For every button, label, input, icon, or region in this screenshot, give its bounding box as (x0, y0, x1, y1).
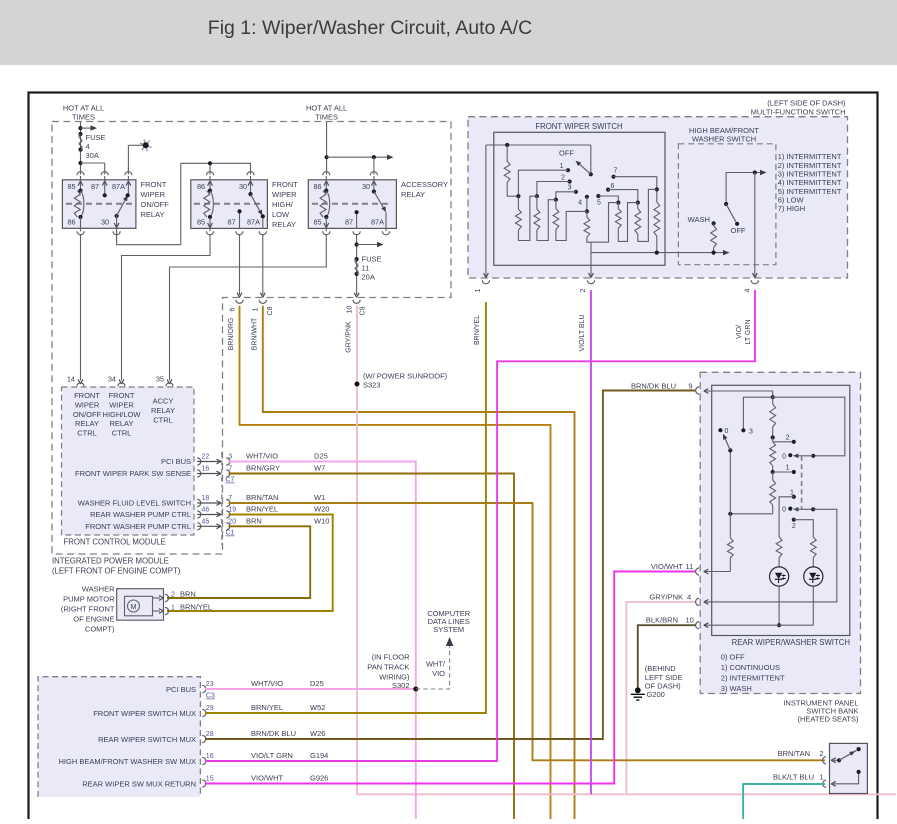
wire GRY/PNK circuit 10 w/ splice S323 (357, 306, 896, 795)
svg-text:6: 6 (611, 183, 615, 190)
FWS common node (486, 144, 591, 146)
svg-text:20A: 20A (362, 273, 375, 282)
svg-text:22: 22 (202, 454, 210, 461)
svg-text:BRN: BRN (246, 517, 262, 526)
svg-text:1: 1 (819, 772, 823, 781)
svg-text:87: 87 (227, 218, 235, 227)
FWS resistor R0 (506, 145, 508, 161)
svg-text:28: 28 (206, 731, 214, 738)
relay K1 pin 85 (77, 172, 84, 176)
svg-text:OFF: OFF (559, 149, 574, 158)
svg-text:C3: C3 (206, 693, 215, 700)
svg-text:VIO/LT BLU: VIO/LT BLU (579, 314, 586, 351)
svg-text:VIO/WHT: VIO/WHT (651, 562, 683, 571)
deck2 common 0 (788, 507, 792, 511)
svg-text:WIPER: WIPER (109, 400, 134, 409)
svg-text:2: 2 (792, 523, 796, 530)
wire to MFS pin 4 (754, 173, 756, 277)
svg-text:HIGH BEAM/FRONT WASHER SW MUX: HIGH BEAM/FRONT WASHER SW MUX (58, 757, 196, 766)
mechanical link dashed (801, 456, 803, 510)
svg-text:14: 14 (67, 375, 75, 384)
svg-text:FRONT: FRONT (272, 180, 298, 189)
svg-text:87A: 87A (112, 182, 125, 191)
svg-text:0: 0 (782, 507, 786, 514)
FWS contact 5 (596, 194, 600, 198)
svg-text:7) HIGH: 7) HIGH (778, 204, 806, 213)
svg-text:RELAY: RELAY (272, 220, 296, 229)
FWS resistor R7 (654, 202, 660, 236)
connector C7 boundary (221, 452, 223, 487)
svg-text:GRY/PNK: GRY/PNK (346, 321, 353, 353)
FWS resistor R1 (517, 196, 519, 209)
svg-text:20: 20 (228, 518, 236, 525)
svg-text:87: 87 (345, 218, 353, 227)
svg-text:1) INTERMITTENT: 1) INTERMITTENT (778, 152, 842, 161)
svg-text:(W/ POWER SUNROOF): (W/ POWER SUNROOF) (363, 371, 448, 380)
wire VIO/LT BLU circuit 2 (590, 290, 592, 794)
svg-text:D25: D25 (314, 452, 328, 461)
FWS contact 7 (612, 175, 616, 179)
svg-text:ACCY: ACCY (153, 397, 174, 406)
svg-text:45: 45 (202, 518, 210, 525)
relay K3 coil (324, 189, 328, 193)
rear switch left resistor (729, 514, 731, 538)
svg-text:1) CONTINUOUS: 1) CONTINUOUS (721, 663, 780, 672)
motor pin 2 (153, 597, 161, 599)
svg-text:10: 10 (686, 616, 694, 625)
svg-text:FRONT WASHER PUMP CTRL: FRONT WASHER PUMP CTRL (85, 522, 191, 531)
rear switch pin 10 (705, 624, 814, 626)
connector C1 boundary (221, 494, 223, 545)
svg-text:W52: W52 (310, 703, 325, 712)
wire BLK/LT BLU (743, 784, 825, 819)
svg-text:10: 10 (347, 306, 354, 314)
svg-text:16: 16 (206, 753, 214, 760)
svg-text:BLK/BRN: BLK/BRN (646, 616, 678, 625)
ground G200 (635, 687, 641, 693)
FWS resistor R4 (586, 211, 588, 217)
svg-text:1: 1 (790, 489, 794, 496)
svg-text:BRN/YEL: BRN/YEL (251, 703, 283, 712)
washer switch arm (726, 173, 763, 205)
svg-text:87: 87 (91, 182, 99, 191)
svg-text:46: 46 (202, 507, 210, 514)
svg-text:BRN/TAN: BRN/TAN (778, 749, 810, 758)
svg-text:WIPER: WIPER (141, 190, 166, 199)
relay K3 pin 30 (370, 172, 377, 176)
svg-text:FRONT CONTROL MODULE: FRONT CONTROL MODULE (64, 538, 166, 547)
svg-text:FRONT WIPER PARK SW SENSE: FRONT WIPER PARK SW SENSE (75, 469, 191, 478)
rear switch resistor chain R2 (770, 442, 776, 466)
svg-text:6: 6 (229, 307, 236, 311)
svg-text:(IN FLOOR: (IN FLOOR (372, 653, 411, 662)
FWS resistor R2 (536, 196, 538, 209)
relay K2 FRONT WIPER HIGH/LOW RELAY (191, 180, 268, 229)
svg-text:REAR WASHER PUMP CTRL: REAR WASHER PUMP CTRL (90, 510, 191, 519)
svg-text:29: 29 (206, 705, 214, 712)
svg-text:86: 86 (313, 182, 321, 191)
svg-text:BRN/YEL: BRN/YEL (246, 505, 278, 514)
svg-text:0: 0 (782, 453, 786, 460)
wire to deck1 common (773, 397, 845, 456)
svg-text:BRN/DK BLU: BRN/DK BLU (631, 381, 676, 390)
svg-text:BRN: BRN (180, 589, 196, 598)
svg-text:2: 2 (819, 749, 823, 758)
svg-text:87A: 87A (247, 218, 260, 227)
FWS resistor R5 (617, 203, 619, 209)
FWS contact 2 (568, 179, 572, 183)
svg-text:W20: W20 (314, 505, 329, 514)
rear switch arm (left) (729, 450, 731, 513)
svg-text:RELAY: RELAY (401, 190, 425, 199)
relay K1 pin 87 (101, 172, 108, 176)
svg-text:WHT/VIO: WHT/VIO (246, 452, 278, 461)
relay K3 pin 85 (325, 217, 327, 231)
wire K1 pin30 to K2 feed (113, 231, 120, 235)
wire BRN/WHT circuit 1 (263, 306, 575, 819)
heated seat switch (bottom right) (830, 743, 868, 793)
svg-text:1: 1 (786, 465, 790, 472)
svg-text:BRN/ORG: BRN/ORG (228, 318, 235, 351)
svg-text:1: 1 (560, 163, 564, 170)
relay K1 FRONT WIPER ON/OFF RELAY (62, 180, 135, 229)
connector C9 pin 10 (353, 300, 360, 304)
wire K1 pin 86 to FCM pin 14 (77, 231, 84, 235)
wire fuse 4 drop (80, 122, 82, 175)
svg-text:BLK/LT BLU: BLK/LT BLU (773, 772, 814, 781)
svg-text:ON/OFF: ON/OFF (73, 410, 102, 419)
FWS contact 6 (606, 188, 610, 192)
svg-text:ON/OFF: ON/OFF (141, 200, 170, 209)
wire splice arrow right (81, 127, 93, 129)
svg-text:GRY/PNK: GRY/PNK (649, 592, 683, 601)
svg-text:23: 23 (206, 681, 214, 688)
svg-text:WASH: WASH (688, 215, 710, 224)
svg-text:PUMP MOTOR: PUMP MOTOR (63, 595, 115, 604)
svg-text:30A: 30A (86, 151, 99, 160)
wire K2 pin 87 to C8 pin 6 (236, 231, 243, 235)
svg-text:S302: S302 (392, 681, 410, 690)
relay K1 coil (78, 189, 82, 193)
svg-text:(LEFT FRONT OF ENGINE COMPT): (LEFT FRONT OF ENGINE COMPT) (52, 566, 181, 575)
svg-text:PAN TRACK: PAN TRACK (367, 663, 409, 672)
svg-text:FRONT: FRONT (141, 180, 167, 189)
LED indicator (right) (804, 567, 823, 586)
svg-text:G926: G926 (310, 773, 328, 782)
svg-text:(HEATED SEATS): (HEATED SEATS) (798, 715, 859, 724)
svg-text:LOW: LOW (272, 210, 290, 219)
svg-text:RELAY: RELAY (141, 210, 165, 219)
svg-text:4: 4 (745, 288, 752, 292)
svg-text:TIMES: TIMES (72, 113, 95, 122)
Integrated Power Module dashed outline (52, 122, 451, 555)
relay K1 pin 87A (125, 172, 132, 176)
svg-text:FUSE: FUSE (86, 133, 106, 142)
svg-text:BRN/TAN: BRN/TAN (246, 493, 278, 502)
wire K2 pin 85 to FCM pin 34 (206, 231, 213, 235)
svg-text:35: 35 (156, 375, 164, 384)
relay K2 pin 86 (206, 172, 213, 176)
svg-text:FRONT: FRONT (74, 391, 100, 400)
svg-text:86: 86 (67, 218, 75, 227)
fuse F11 20A (355, 257, 359, 261)
svg-text:30: 30 (239, 182, 247, 191)
svg-text:OFF: OFF (731, 226, 746, 235)
svg-text:3: 3 (749, 428, 753, 435)
svg-text:WASHER: WASHER (82, 585, 115, 594)
splice from K1 87A (127, 145, 129, 174)
relay K2 pin 30 (247, 172, 254, 176)
svg-text:(BEHIND: (BEHIND (645, 664, 676, 673)
svg-text:85: 85 (67, 182, 75, 191)
wire BLK/BRN to ground (638, 625, 696, 688)
LED indicator (middle) (770, 567, 789, 586)
svg-text:6) LOW: 6) LOW (778, 196, 805, 205)
wire K2 pin 87A to C8 pin 1 (259, 231, 266, 235)
FRONT WIPER SWITCH box (494, 132, 665, 265)
svg-text:WHT/: WHT/ (426, 660, 446, 669)
wire K2 feed loop (86+30 tie) (209, 163, 211, 174)
wire accessory relay feed (326, 122, 328, 175)
svg-text:4: 4 (86, 142, 90, 151)
svg-text:BRN/DK BLU: BRN/DK BLU (251, 729, 296, 738)
svg-text:FUSE: FUSE (362, 255, 382, 264)
wire to contact 3 (743, 397, 772, 430)
rear switch right resistor (810, 537, 816, 558)
svg-text:4: 4 (578, 200, 582, 207)
svg-text:REAR WIPER SWITCH MUX: REAR WIPER SWITCH MUX (98, 735, 196, 744)
wire K3 pin 87 to fuse 11 (353, 231, 360, 235)
svg-text:VIO: VIO (432, 669, 445, 678)
relay K2 contact arm (248, 192, 252, 196)
relay K1 contact arm (115, 214, 119, 218)
FWS contact 4 (585, 195, 589, 199)
svg-text:VIO/: VIO/ (736, 325, 743, 339)
svg-text:HIGH/: HIGH/ (272, 200, 294, 209)
relay K2 pin 87 (239, 211, 241, 228)
svg-text:7: 7 (228, 495, 232, 502)
rear switch pin 11 (705, 571, 731, 573)
svg-text:WASHER SWITCH: WASHER SWITCH (692, 135, 756, 144)
svg-text:LT GRN: LT GRN (745, 319, 752, 344)
relay K2 pin 87A (262, 216, 264, 228)
svg-text:34: 34 (108, 375, 116, 384)
contact 1 row (773, 471, 794, 473)
svg-text:0: 0 (725, 428, 729, 435)
wire FWS to MFS pin 1 (485, 145, 487, 277)
svg-text:S323: S323 (363, 380, 381, 389)
FWS OFF contact arm (590, 145, 592, 174)
svg-text:2: 2 (561, 174, 565, 181)
relay K1 pin 86 (80, 217, 82, 231)
svg-text:FRONT WIPER SWITCH MUX: FRONT WIPER SWITCH MUX (93, 709, 196, 718)
svg-text:M: M (131, 604, 137, 611)
relay K3 ACCESSORY RELAY (308, 180, 396, 229)
svg-text:W10: W10 (314, 517, 329, 526)
svg-text:G194: G194 (310, 751, 328, 760)
svg-text:C1: C1 (226, 530, 235, 537)
svg-text:87A: 87A (371, 218, 384, 227)
HIGH BEAM/FRONT WASHER SWITCH dashed box (678, 144, 776, 265)
fuse F4 30A (78, 132, 82, 136)
svg-text:FRONT WIPER SWITCH: FRONT WIPER SWITCH (535, 122, 622, 131)
svg-text:85: 85 (313, 218, 321, 227)
FRONT CONTROL MODULE box (62, 387, 195, 535)
svg-text:VIO/LT GRN: VIO/LT GRN (251, 751, 293, 760)
svg-text:RELAY: RELAY (151, 406, 175, 415)
MULTI-FUNCTION SWITCH dashed box (468, 117, 848, 278)
svg-text:C9: C9 (360, 306, 367, 315)
title bar (0, 0, 897, 65)
svg-text:VIO/WHT: VIO/WHT (251, 773, 283, 782)
svg-text:(RIGHT FRONT: (RIGHT FRONT (61, 605, 115, 614)
svg-text:0) OFF: 0) OFF (721, 653, 745, 662)
svg-text:7: 7 (614, 168, 618, 175)
svg-text:CTRL: CTRL (77, 429, 97, 438)
svg-text:BRN/YEL: BRN/YEL (474, 315, 481, 345)
wire BRN/ORG circuit 6 (240, 306, 551, 819)
svg-text:86: 86 (197, 182, 205, 191)
svg-text:3) WASH: 3) WASH (721, 684, 752, 693)
svg-text:9: 9 (688, 381, 692, 390)
svg-text:C8: C8 (267, 306, 274, 315)
svg-text:BRN/GRY: BRN/GRY (246, 464, 280, 473)
svg-text:FRONT: FRONT (109, 391, 135, 400)
svg-text:W1: W1 (314, 493, 325, 502)
svg-text:3: 3 (228, 454, 232, 461)
wire wash bus (665, 252, 726, 254)
svg-text:4: 4 (687, 592, 691, 601)
instrument cluster module (bottom left) (38, 677, 200, 797)
svg-text:ACCESSORY: ACCESSORY (401, 180, 448, 189)
svg-text:HOT AT ALL: HOT AT ALL (63, 104, 104, 113)
relay K3 pin 87A stub (382, 231, 389, 235)
relay K3 pin 87A (385, 212, 387, 228)
svg-text:11: 11 (686, 562, 694, 571)
svg-text:RELAY: RELAY (75, 419, 99, 428)
svg-text:2: 2 (171, 591, 175, 598)
svg-text:3) INTERMITTENT: 3) INTERMITTENT (778, 170, 842, 179)
svg-text:WASHER FLUID LEVEL SWITCH: WASHER FLUID LEVEL SWITCH (78, 499, 191, 508)
svg-text:30: 30 (101, 218, 109, 227)
svg-text:19: 19 (228, 507, 236, 514)
wire K3 pin 85 to FCM pin 35 (323, 231, 330, 235)
svg-text:REAR WIPER SW MUX RETURN: REAR WIPER SW MUX RETURN (82, 780, 196, 789)
svg-text:HOT AT ALL: HOT AT ALL (306, 104, 347, 113)
svg-text:30: 30 (362, 182, 370, 191)
svg-text:COMPT): COMPT) (85, 625, 115, 634)
svg-text:5: 5 (597, 200, 601, 207)
relay K3 contact arm (372, 189, 376, 193)
relay K3 pin 87 (356, 212, 358, 228)
svg-text:Fig 1: Wiper/Washer Circuit, A: Fig 1: Wiper/Washer Circuit, Auto A/C (208, 17, 532, 39)
svg-text:SYSTEM: SYSTEM (433, 625, 464, 634)
relay K2 pin 85 (209, 217, 211, 231)
svg-text:LEFT SIDE: LEFT SIDE (645, 673, 683, 682)
svg-text:2) INTERMITTENT: 2) INTERMITTENT (721, 674, 785, 683)
splice S302 (413, 687, 418, 692)
svg-text:D25: D25 (310, 679, 324, 688)
svg-text:PCI BUS: PCI BUS (161, 457, 191, 466)
svg-text:3: 3 (568, 185, 572, 192)
svg-text:18: 18 (202, 495, 210, 502)
contact 2 row (773, 441, 794, 443)
deck2 contact 1 (792, 495, 796, 499)
deck2 contact 2 (792, 518, 796, 522)
svg-text:W7: W7 (314, 464, 325, 473)
svg-text:16: 16 (202, 466, 210, 473)
FWS resistor R6 (637, 203, 639, 209)
svg-text:MULTI-FUNCTION SWITCH: MULTI-FUNCTION SWITCH (751, 108, 846, 117)
svg-text:CTRL: CTRL (112, 429, 132, 438)
svg-text:PCI BUS: PCI BUS (166, 685, 196, 694)
REAR WIPER/WASHER SWITCH box (712, 385, 850, 635)
svg-text:4) INTERMITTENT: 4) INTERMITTENT (778, 178, 842, 187)
rear switch middle resistor (776, 537, 782, 558)
relay K2 coil (208, 189, 212, 193)
svg-text:OF ENGINE: OF ENGINE (73, 615, 114, 624)
junction to wiper arm branch (730, 513, 772, 515)
svg-text:BRN/YEL: BRN/YEL (180, 602, 212, 611)
svg-text:WIPER: WIPER (272, 190, 297, 199)
washer pump motor M1 (117, 589, 164, 621)
svg-text:2: 2 (786, 434, 790, 441)
svg-text:HIGH BEAM/FRONT: HIGH BEAM/FRONT (689, 126, 759, 135)
FWS resistor R3 (555, 200, 557, 209)
svg-text:G200: G200 (647, 690, 665, 699)
junction node fuse4 out (78, 161, 82, 165)
rear switch resistor chain R3 (770, 480, 776, 505)
relay K1 pin 30 (116, 216, 118, 228)
svg-text:WHT/VIO: WHT/VIO (251, 679, 283, 688)
svg-text:WIPER: WIPER (75, 400, 100, 409)
FWS contact 3 (574, 190, 578, 194)
svg-text:TIMES: TIMES (315, 113, 338, 122)
svg-text:BRN/WHT: BRN/WHT (251, 317, 258, 350)
svg-text:15: 15 (206, 776, 214, 783)
svg-text:REAR WIPER/WASHER SWITCH: REAR WIPER/WASHER SWITCH (732, 638, 850, 647)
svg-text:7: 7 (228, 466, 232, 473)
computer data lines system note (416, 644, 450, 689)
FWS bus to pin 2 (590, 242, 592, 252)
relay K3 pin 86 (323, 172, 330, 176)
motor pin 1 (153, 610, 161, 612)
svg-text:C7: C7 (226, 477, 235, 484)
svg-text:INTEGRATED POWER MODULE: INTEGRATED POWER MODULE (52, 557, 169, 566)
svg-text:(LEFT SIDE OF DASH): (LEFT SIDE OF DASH) (767, 99, 846, 108)
rear switch resistor chain R1 (772, 397, 774, 404)
FWS contact 1 (566, 168, 570, 172)
svg-text:1: 1 (475, 288, 482, 292)
svg-text:W26: W26 (310, 729, 325, 738)
splice S323 (355, 382, 360, 387)
svg-text:HIGH/LOW: HIGH/LOW (103, 410, 142, 419)
svg-text:CTRL: CTRL (153, 415, 173, 424)
svg-text:1: 1 (171, 604, 175, 611)
svg-text:RELAY: RELAY (109, 419, 133, 428)
svg-text:1: 1 (253, 307, 260, 311)
wire GRY/PNK riser to rear switch pin 4 (626, 602, 696, 794)
svg-text:85: 85 (197, 218, 205, 227)
instrument panel switch bank dashed box (700, 372, 860, 693)
wire to relay K1 pin 87 (81, 162, 105, 164)
svg-text:2: 2 (580, 288, 587, 292)
svg-text:11: 11 (362, 264, 370, 273)
